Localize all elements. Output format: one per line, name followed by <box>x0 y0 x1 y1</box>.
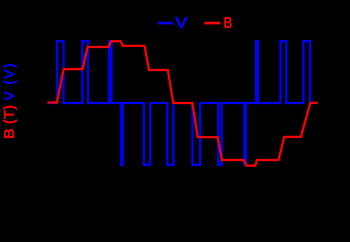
svg-text:B: B <box>224 14 233 32</box>
svg-text:V: V <box>175 14 188 32</box>
svg-text:V (V): V (V) <box>2 62 18 101</box>
svg-text:B (T): B (T) <box>2 105 18 139</box>
